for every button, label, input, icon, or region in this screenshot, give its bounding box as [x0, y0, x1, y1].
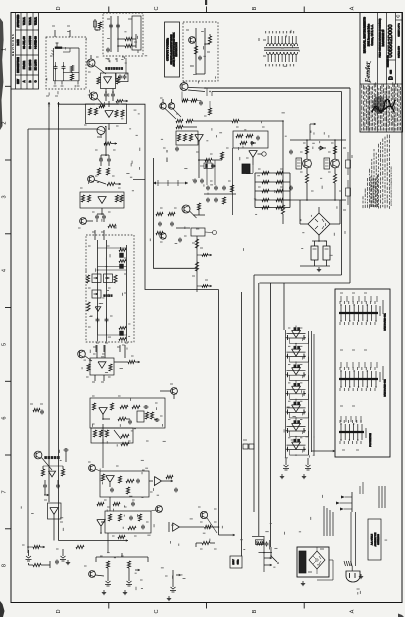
compressor lower box: [91, 428, 133, 443]
resistor R5: [115, 110, 118, 117]
test point row: [153, 180, 188, 186]
svg-text:BASSMAN 25: BASSMAN 25: [381, 29, 385, 46]
notes text block: [363, 134, 389, 208]
op-amp U6B small: [48, 471, 55, 477]
revision table frame: [11, 13, 39, 90]
preout tap arrow 2: [197, 285, 212, 288]
wire AC inlet column: [340, 492, 356, 566]
wire trunk arrows top: [46, 96, 60, 107]
figure note text: [360, 482, 363, 494]
wire switch net: [54, 48, 80, 81]
transistor Q9: [89, 571, 96, 578]
resistor R56: [41, 469, 44, 476]
label cluster preamp: [78, 57, 128, 228]
inner shield rect standby: [132, 16, 141, 50]
wire channel2: [100, 510, 155, 534]
approval stamp blob: [373, 96, 386, 114]
resistor R66: [236, 134, 243, 137]
capacitor C14 dark: [120, 331, 124, 336]
svg-text:EC 2454: EC 2454: [33, 59, 37, 70]
svg-text:C: C: [154, 6, 160, 10]
capacitor C18: [155, 419, 157, 421]
svg-text:Fender: Fender: [364, 61, 372, 82]
scan speck top edge: [205, 0, 207, 5]
resistor R71 emitter: [333, 174, 336, 183]
capacitor C16: [144, 406, 146, 408]
transistor Q3: [88, 176, 95, 183]
EQ jack J7: [302, 458, 311, 479]
pad L EQ stage 5: [286, 409, 288, 414]
svg-text:D: D: [56, 609, 62, 613]
resistor R68: [240, 141, 247, 144]
connector P1 header: [339, 301, 378, 325]
capacitor C20: [137, 479, 139, 481]
svg-text:04-FEB-99: 04-FEB-99: [33, 36, 37, 49]
connector P1 labels: [380, 300, 387, 331]
connector P3 labels: [366, 428, 372, 447]
wire EQ stage 3 footer: [290, 375, 309, 381]
wire splitter diagonals: [163, 99, 181, 119]
resistor R61: [186, 119, 193, 122]
op-amp U1B: [105, 111, 113, 118]
scan edge artifact bottom-left: [0, 601, 5, 617]
wire jack feeds: [95, 568, 181, 581]
capacitor C25: [56, 560, 58, 562]
scan speck bottom-right: [398, 614, 404, 617]
stage box channel1: [100, 471, 149, 497]
wire cap row join: [101, 154, 109, 166]
wire preout: [193, 208, 205, 215]
label cluster fx: [198, 507, 217, 549]
wire U8 out: [253, 152, 266, 165]
resistor R12: [87, 195, 90, 202]
drawing number 005562D000: [386, 24, 394, 67]
label cluster poweramp: [160, 98, 342, 242]
svg-text:R E V I S I O N S: R E V I S I O N S: [11, 34, 15, 56]
svg-text:7: 7: [2, 490, 8, 493]
svg-text:REV: REV: [18, 79, 20, 84]
zone tick marks top edge: [109, 7, 304, 13]
wire verticals output power box: [196, 28, 205, 74]
wire y179 stub: [133, 179, 145, 181]
op-amp U1B stage box: [86, 104, 127, 124]
svg-text:30-JUL-98: 30-JUL-98: [22, 36, 26, 49]
capacitor C34: [290, 150, 292, 152]
AC plug P4: [346, 566, 360, 582]
resistor R58: [33, 408, 40, 411]
svg-text:MAIN BOARD CN1: MAIN BOARD CN1: [384, 313, 387, 331]
resistor R4: [94, 108, 97, 115]
cap bank box: [116, 73, 128, 82]
svg-text:W.R.H.: W.R.H.: [34, 17, 37, 25]
svg-text:4: 4: [2, 269, 8, 272]
op-amp U11 EQ stage: [287, 326, 306, 339]
capacitor C46: [175, 488, 177, 490]
wire stage drops: [44, 480, 58, 496]
resistor R31: [110, 403, 113, 410]
resistor R26: [109, 364, 112, 371]
svg-text:NOTES: UNLESS OTHERWISE SPECIF: NOTES: UNLESS OTHERWISE SPECIFIED: [391, 166, 393, 206]
resistor R54: [106, 561, 109, 568]
wire box B joins: [54, 62, 80, 81]
transformer lead left: [259, 38, 266, 56]
wire stubs standby to stage: [107, 58, 126, 73]
wire vertical bus x218: [218, 290, 220, 536]
op-amp U3B stage box: [90, 398, 165, 428]
input jack J2: [60, 549, 70, 565]
opto attenuator: [137, 411, 144, 422]
svg-text:8: 8: [2, 564, 8, 567]
wire ladder bus: [255, 173, 290, 208]
label cluster tone: [88, 246, 127, 327]
resistor R15: [108, 224, 116, 227]
resistor R22: [119, 327, 126, 330]
capacitor C26: [44, 484, 46, 486]
resistor R93: [98, 22, 101, 28]
connector panel box: [335, 289, 390, 457]
label cluster power extra: [163, 143, 334, 168]
component pair box x244: [243, 440, 254, 449]
capacitor C60: [55, 65, 57, 67]
svg-text:A: A: [350, 6, 356, 10]
resistor R62: [176, 125, 183, 128]
resistor R24 vert: [87, 302, 90, 311]
preout tap arrow 1: [197, 254, 212, 257]
resistor R6: [121, 110, 124, 117]
pad R EQ stage 2: [304, 354, 306, 359]
transistor Q10: [189, 37, 196, 44]
resistor ladder rung 4: [255, 198, 290, 201]
resistor R95: [194, 46, 197, 54]
svg-text:SCALE: NTS: SCALE: NTS: [397, 46, 400, 58]
wire trunk stage2: [44, 500, 63, 541]
resistor R63: [177, 134, 180, 141]
resistor R36: [150, 412, 153, 419]
svg-text:1: 1: [2, 48, 8, 51]
wire trunk vertical x58: [58, 103, 60, 541]
wire U7 tail: [198, 142, 207, 179]
resistor R57: [61, 469, 64, 476]
svg-text:C: C: [154, 609, 160, 613]
wire channel1: [95, 469, 173, 487]
dashed enclosure standby: [103, 13, 143, 56]
capacitor C7: [96, 215, 98, 217]
title block frame: [360, 13, 403, 133]
potentiometer VR4: [92, 290, 101, 298]
resistor R32: [120, 405, 128, 408]
wire Q11 to rails: [184, 81, 206, 92]
wire tone bottom pins: [96, 335, 128, 343]
transformer pin labels bottom: [266, 64, 294, 66]
resistor R99: [166, 475, 173, 478]
wire vertical bus x242: [241, 292, 243, 556]
switch S1 bar: [55, 43, 62, 49]
resistor R65: [189, 134, 192, 141]
wire arrow feed y541: [59, 539, 129, 542]
op-amp U1A stage box: [101, 73, 116, 92]
op-amp U2A: [98, 197, 106, 204]
svg-text:30-OCT-98: 30-OCT-98: [28, 36, 32, 49]
capacitor C12: [97, 318, 99, 320]
resistor R80: [333, 146, 336, 154]
wire tone verticals: [98, 240, 127, 335]
wire secondary leads: [264, 557, 272, 567]
wire tone rungs: [97, 248, 127, 271]
op-amp U3A: [98, 362, 106, 368]
wire Q6 leads: [160, 384, 174, 399]
resistor R2: [116, 77, 119, 84]
transistor Q1: [87, 59, 95, 67]
resistor R42: [126, 479, 134, 482]
svg-text:DATE: DATE: [17, 39, 20, 46]
dashed enclosure power switch: [46, 37, 86, 89]
capacitor C60b: [63, 65, 65, 67]
label cluster reverb drv: [86, 345, 134, 377]
op-amp U7 box: [176, 131, 198, 145]
capacitor C43: [212, 164, 214, 166]
resistor R38: [99, 430, 102, 437]
connector P3 header: [339, 420, 364, 444]
svg-text:B: B: [252, 609, 258, 613]
resistor R69: [197, 203, 200, 210]
resistor R41: [118, 476, 121, 483]
resistor R13: [115, 195, 118, 202]
bridge rectifier BR1: [308, 213, 330, 235]
resistor R37b: [121, 434, 129, 437]
wire power rail x341: [341, 92, 343, 276]
svg-text:6: 6: [2, 417, 8, 420]
bridge BR2 in AC box: [309, 551, 325, 569]
capacitor C44: [200, 101, 202, 103]
wire verticals in standby box: [111, 16, 118, 52]
mute dashes tone: [104, 295, 113, 297]
diode D2: [318, 146, 326, 150]
resistor R78: [220, 152, 223, 159]
AC receptacle box: [297, 547, 329, 577]
op-amp U4B: [154, 477, 161, 486]
svg-text:MAIN BOARD CN2: MAIN BOARD CN2: [384, 379, 387, 397]
svg-text:SHEET 1 OF 2: SHEET 1 OF 2: [398, 22, 400, 36]
power switch S2: [270, 547, 279, 564]
op-amp U16 EQ stage: [287, 419, 306, 432]
resistor R40: [101, 474, 104, 481]
wire lamp plus: [97, 135, 101, 139]
company address text: [363, 17, 375, 53]
AC cord strain relief: [344, 561, 352, 566]
resistor R91: [125, 37, 132, 40]
wire stubs above dashed box: [52, 26, 70, 37]
capacitor C61: [110, 24, 112, 26]
pad R EQ stage 5: [304, 409, 306, 414]
resistor R2b arrow: [116, 100, 128, 103]
wire EQ stage 6 footer: [290, 431, 309, 437]
wire Q1 collector: [91, 55, 106, 74]
wire fx stage: [169, 518, 219, 534]
capacitor C45: [132, 502, 134, 504]
switch contact ticks: [50, 51, 54, 57]
pad R EQ stage 3: [304, 372, 306, 377]
wire fx out arrow: [219, 534, 236, 537]
resistor R43: [126, 487, 129, 494]
op-amp U3B: [99, 408, 107, 415]
svg-text:005562D000: 005562D000: [388, 24, 394, 57]
wire trunk vertical x49: [48, 103, 50, 502]
wire EQ stage 5 footer: [290, 412, 309, 418]
trim pot block: [200, 163, 216, 169]
wire jack bracket: [96, 553, 148, 562]
resistor R53 arrow tap: [27, 545, 45, 548]
AC cable label box: [368, 519, 381, 560]
input jack J3: [102, 575, 111, 595]
potentiometer VR1: [92, 274, 101, 283]
wire x283: [282, 120, 284, 224]
capacitor C4: [112, 93, 114, 95]
resistor R96: [97, 502, 104, 505]
pad R EQ stage 1: [304, 335, 306, 340]
transistor Q4: [80, 218, 87, 225]
wire bridge leads: [300, 200, 340, 242]
wire Q12 brace: [42, 448, 69, 470]
transistor Q6: [171, 388, 178, 395]
capacitor C23: [142, 525, 144, 527]
wire fuse link: [95, 28, 100, 31]
resistor ladder rung 1: [255, 171, 290, 174]
svg-text:OUTPUT POWER:: OUTPUT POWER:: [166, 38, 170, 61]
capacitor C30: [257, 136, 259, 138]
filter capacitor C36: [311, 241, 318, 260]
wire bias drop: [232, 148, 234, 215]
op-amp U2A stage box: [80, 192, 124, 208]
resistor R34: [118, 417, 126, 420]
transformer core: [264, 48, 299, 50]
svg-text:FOOTSWITCH: FOOTSWITCH: [370, 433, 372, 447]
resistor R52: [196, 541, 215, 547]
op-amp U13 EQ stage: [287, 363, 306, 376]
svg-text:HEATSINK NOTE: HEATSINK NOTE: [175, 42, 178, 57]
capacitor C8: [103, 215, 105, 217]
resistor R72: [281, 205, 284, 214]
field service diagram title: [379, 18, 386, 57]
stage box channel2: [105, 511, 151, 533]
resistor R7 arrow: [104, 142, 117, 145]
ground AC: [360, 574, 362, 577]
resistor R10 arrow: [94, 180, 121, 186]
resistor R45: [118, 514, 121, 521]
scale strip: [397, 22, 400, 57]
pad R EQ stage 4: [304, 391, 306, 396]
resistor R90b: [70, 74, 73, 80]
svg-text:B: B: [252, 6, 258, 10]
resistor R79: [305, 146, 308, 154]
resistor R50: [205, 525, 212, 528]
input jack J4: [123, 575, 132, 595]
svg-text:60Hz: 60Hz: [238, 560, 240, 565]
transformer T1 secondary cluster: [252, 537, 272, 573]
input jack J5: [167, 581, 176, 601]
AC inlet arrows: [336, 496, 345, 511]
capacitor C28: [41, 410, 43, 412]
resistor R21: [119, 260, 126, 263]
capacitor C21: [111, 488, 113, 490]
snubber parts: [156, 212, 190, 234]
svg-text:D: D: [56, 6, 62, 10]
wire section boundary step A: [59, 104, 219, 289]
capacitor C62: [117, 24, 119, 26]
svg-text:APPROVED: APPROVED: [17, 14, 20, 27]
svg-text:EC 2368: EC 2368: [28, 59, 32, 70]
AC receptacle label block: [299, 551, 306, 573]
wire power rail x350: [349, 88, 351, 283]
resistor R97: [113, 502, 120, 505]
resistor R64: [183, 134, 186, 141]
resistor R48: [76, 545, 84, 548]
connector P2 labels: [380, 366, 387, 397]
wire driver bus bottom: [283, 199, 346, 201]
mute legend row: [45, 456, 60, 459]
wire vertical bus x259: [258, 283, 260, 536]
transistor Q18: [200, 511, 207, 518]
resistor ladder rung 3: [255, 189, 290, 192]
wire interstage links: [103, 439, 110, 553]
input jack J1: [26, 550, 32, 561]
op-amp U8: [249, 151, 257, 158]
svg-text:W.R.H.: W.R.H.: [23, 17, 26, 25]
wire collector feed arrow: [310, 123, 316, 140]
dashed enclosure output power: [183, 22, 218, 81]
resistor R33: [132, 405, 140, 408]
label cluster jacks: [22, 545, 168, 580]
small triangle U tone: [95, 307, 101, 311]
svg-text:A.C. CABLE: A.C. CABLE: [371, 533, 374, 545]
capacitor C42: [176, 147, 178, 149]
pad L EQ stage 4: [286, 391, 288, 396]
fuse F1: [90, 19, 97, 30]
resistor R23 edge: [86, 275, 89, 283]
pad R EQ stage 6: [304, 428, 306, 433]
wire preamp tail: [86, 208, 104, 222]
wire U1B column: [108, 101, 110, 130]
svg-text:D: D: [388, 76, 394, 80]
wire conn pins extra: [341, 296, 377, 422]
label trunk mid: [30, 403, 43, 405]
dashed enclosure tone stack: [86, 235, 134, 342]
pad R EQ stage 7: [304, 447, 306, 452]
revision row C EC 2454: [33, 17, 37, 83]
op-amp U5A: [97, 520, 105, 527]
svg-text:MUSICAL INSTRUMENTS: MUSICAL INSTRUMENTS: [363, 17, 367, 53]
resistor R23b edge: [114, 275, 117, 283]
wire y127 short: [183, 126, 197, 128]
wire U3A stage: [85, 345, 128, 362]
wire reverb stubs below: [92, 375, 104, 382]
svg-text:120V: 120V: [233, 559, 235, 565]
wire power mid joins: [167, 150, 222, 162]
wire output devices: [306, 139, 336, 174]
capacitor C5: [100, 158, 102, 160]
wire filters: [300, 241, 330, 272]
revision table header row: [17, 14, 20, 84]
op-amp U12 EQ stage: [287, 344, 306, 357]
resistor R27 arrow: [128, 360, 140, 363]
capacitor C27: [57, 484, 59, 486]
wire section boundary step B: [154, 158, 198, 268]
resistor R82: [191, 99, 197, 102]
resistor R37: [93, 430, 96, 437]
resistor R55: [127, 561, 130, 568]
wire compressor net: [102, 415, 157, 444]
switch diagonal: [114, 430, 121, 439]
pad L EQ stage 1: [286, 335, 288, 340]
